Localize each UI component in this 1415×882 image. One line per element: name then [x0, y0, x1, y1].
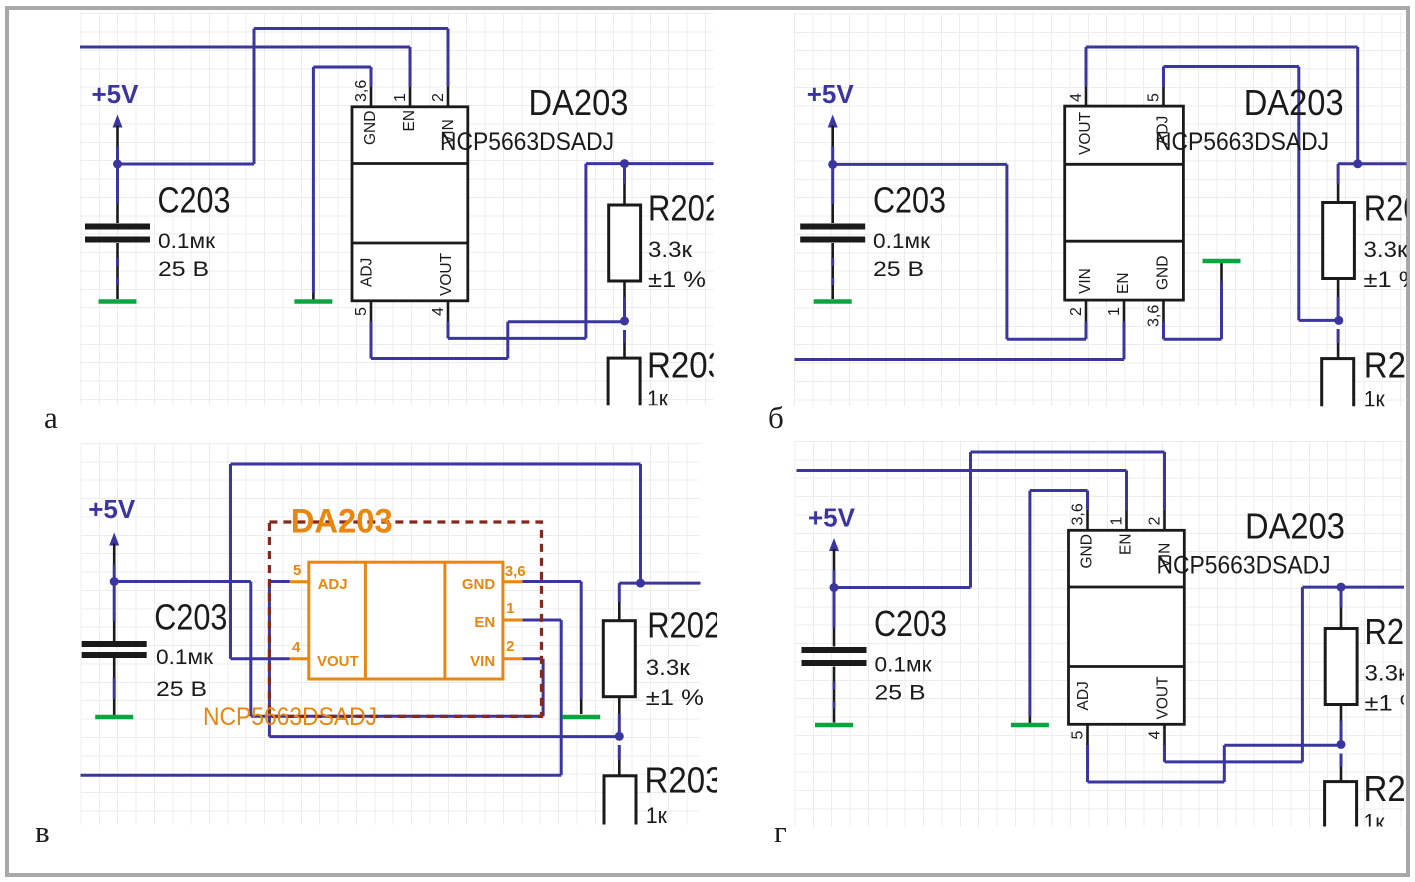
resistor R203 (v) — [618, 745, 621, 760]
svg-text:GND: GND — [362, 111, 379, 145]
svg-text:2: 2 — [430, 93, 447, 102]
ground (below C203) — [99, 299, 137, 304]
svg-text:ADJ: ADJ — [318, 576, 348, 593]
panel label b — [768, 400, 784, 436]
orange pin stub 1 EN — [503, 619, 523, 622]
junction output node (v) — [636, 579, 645, 588]
svg-text:GND: GND — [462, 576, 496, 593]
wire +5V horizontal y=581 — [114, 580, 251, 583]
ground stem (v) — [580, 699, 583, 714]
svg-text:GND: GND — [1155, 256, 1172, 290]
wire ADJ down dashed left edge — [268, 582, 271, 737]
svg-text:EN: EN — [401, 110, 418, 132]
svg-text:5: 5 — [1146, 93, 1163, 102]
svg-text:R203: R203 — [1364, 345, 1415, 386]
wire VIN net vertical x=1007 — [1005, 164, 1008, 339]
junction divider midpoint (b) — [1334, 316, 1343, 325]
svg-text:5: 5 — [353, 307, 370, 316]
wire +5V vertical x=251 — [249, 582, 252, 717]
pin stub 3,6 top — [370, 86, 373, 106]
junction divider midpoint (v) — [615, 732, 624, 741]
pin stub 1 top — [409, 86, 412, 106]
svg-text:R202: R202 — [648, 188, 722, 229]
wire VOUT horizontal y=47 — [1086, 46, 1358, 49]
svg-text:25 В: 25 В — [873, 258, 924, 281]
wire ADJ horizontal y=358 — [371, 357, 508, 360]
wire output jog to R202 — [1338, 162, 1358, 165]
wire GND horizontal (v) — [522, 580, 581, 583]
wire VIN net horizontal y=339 — [1007, 338, 1086, 341]
svg-text:DA203: DA203 — [529, 82, 629, 123]
wire VOUT vertical above pin 4 — [1085, 47, 1088, 86]
panel label g — [774, 814, 787, 850]
svg-text:1: 1 — [506, 600, 514, 617]
orange divider 1 (v) — [364, 562, 367, 679]
wire VIN vertical to pin 2 — [447, 29, 450, 87]
svg-text:25 В: 25 В — [156, 678, 207, 701]
pin stub 5 top (b) — [1162, 86, 1165, 106]
svg-text:3,6: 3,6 — [505, 563, 526, 580]
pin stub 4 bottom — [447, 301, 450, 322]
IC divider line 2 (b) — [1065, 240, 1184, 243]
orange symbol body DA203 (v) — [309, 562, 503, 679]
wire GND vertical down to ground — [312, 67, 315, 293]
svg-text:4: 4 — [292, 639, 301, 656]
svg-text:NCP5663DSADJ: NCP5663DSADJ — [440, 128, 614, 156]
pin stub 5 bottom — [370, 301, 373, 322]
wire link to ADJ stub (v) — [269, 580, 289, 583]
wire output net y=164 — [586, 162, 714, 165]
panel a background grid — [80, 14, 714, 406]
junction output node / R202 top — [620, 159, 629, 168]
wire VOUT net top horizontal y=464 — [231, 463, 641, 466]
svg-text:VOUT: VOUT — [317, 653, 359, 670]
svg-text:+5V: +5V — [92, 79, 140, 109]
pin stub 4 top (b) — [1085, 86, 1088, 106]
resistor R203 — [623, 330, 626, 343]
svg-text:C203: C203 — [873, 180, 946, 221]
svg-text:1к: 1к — [646, 803, 667, 828]
junction output node (b) — [1353, 159, 1362, 168]
wire to divider midpoint (v) — [269, 735, 620, 738]
svg-text:4: 4 — [1068, 93, 1085, 102]
capacitor C203 (b) — [831, 164, 834, 204]
wire to VOUT stub (v) — [231, 657, 290, 660]
svg-text:R203: R203 — [647, 345, 726, 386]
panel label a — [44, 400, 58, 436]
panel b background grid — [794, 14, 1406, 406]
wire VOUT vertical — [447, 322, 450, 339]
svg-text:3,6: 3,6 — [1146, 305, 1163, 327]
wire EN vertical (v) — [560, 620, 563, 775]
svg-text:3.3к: 3.3к — [1364, 237, 1408, 262]
ground (below C203, b) — [814, 299, 852, 304]
wire GND vertical — [1162, 322, 1165, 340]
junction divider midpoint — [620, 316, 629, 325]
svg-text:EN: EN — [474, 614, 495, 631]
ground stem — [312, 293, 315, 300]
wire along dashed bottom edge — [251, 715, 543, 718]
orange pin stub 5 ADJ — [290, 580, 309, 583]
resistor R202 — [623, 164, 626, 184]
svg-text:0.1мк: 0.1мк — [158, 230, 216, 253]
ground stem (b) — [1220, 263, 1223, 281]
orange pin stub 2 VIN — [503, 657, 523, 660]
svg-text:1к: 1к — [1364, 387, 1385, 412]
svg-text:C203: C203 — [154, 597, 227, 638]
svg-text:3.3к: 3.3к — [646, 655, 690, 680]
svg-text:±1 %: ±1 % — [1364, 267, 1415, 292]
wire VIN net horizontal y=28 — [254, 27, 448, 30]
svg-text:+5V: +5V — [807, 79, 855, 109]
orange divider 2 (v) — [443, 562, 446, 679]
dashed component outline DA203 (v) — [269, 522, 541, 716]
wire EN net horizontal y=47 — [80, 46, 410, 49]
capacitor C203 — [116, 164, 119, 204]
ground (below C203, v) — [95, 715, 133, 720]
pin stub 2 top — [447, 86, 450, 106]
wire vertical x=254 (+5V to VIN net) — [253, 29, 256, 165]
svg-text:VIN: VIN — [470, 653, 495, 670]
wire EN horizontal (v) — [522, 619, 561, 622]
wire ADJ horizontal y=66 — [1164, 65, 1299, 68]
wire VOUT vertical to output net — [584, 164, 587, 339]
svg-text:0.1мк: 0.1мк — [873, 230, 931, 253]
svg-text:VOUT: VOUT — [1077, 111, 1094, 155]
op-amp/regulator U DA203 box (b) — [1065, 106, 1184, 300]
svg-text:5: 5 — [293, 562, 301, 579]
wire EN vertical to pin 1 — [409, 47, 412, 86]
svg-text:DA203: DA203 — [291, 503, 393, 541]
resistor R203 (b) — [1337, 329, 1340, 343]
wire EN vertical — [1123, 322, 1126, 360]
wire ADJ vertical x=508 — [506, 322, 509, 359]
svg-text:3,6: 3,6 — [353, 80, 370, 102]
resistor R202 (v) — [618, 583, 621, 602]
op-amp/regulator U DA203 box — [352, 107, 468, 301]
resistor R202 (b) — [1337, 164, 1340, 184]
pin stub 1 bottom (b) — [1123, 300, 1126, 321]
wire up dashed right edge — [542, 659, 545, 717]
wire +5V junction to x=254 — [118, 163, 255, 166]
orange pin stub 4 VOUT — [290, 657, 309, 660]
wire GND horizontal — [1164, 338, 1222, 341]
svg-text:0.1мк: 0.1мк — [156, 646, 214, 669]
svg-text:1: 1 — [1106, 307, 1123, 316]
wire ADJ vertical above pin 5 — [1162, 67, 1165, 87]
svg-text:DA203: DA203 — [1244, 82, 1344, 123]
wire VOUT down to output node — [1356, 47, 1359, 164]
svg-text:VOUT: VOUT — [438, 252, 455, 296]
ground (GND pin net) — [294, 299, 332, 304]
wire GND net horizontal y=67 — [313, 66, 371, 69]
wire ADJ to divider midpoint — [1299, 319, 1339, 322]
svg-text:1: 1 — [392, 93, 409, 102]
svg-text:R203: R203 — [645, 759, 724, 800]
svg-text:1к: 1к — [647, 386, 668, 411]
svg-text:4: 4 — [430, 307, 447, 316]
IC divider line 1 — [352, 162, 468, 165]
wire EN net to left edge (v) — [81, 774, 562, 777]
svg-text:NCP5663DSADJ: NCP5663DSADJ — [203, 703, 377, 731]
wire to pin 2 VIN — [1085, 322, 1088, 340]
wire GND vertical (v) — [580, 582, 583, 700]
pin stub 2 bottom (b) — [1085, 300, 1088, 321]
svg-text:3.3к: 3.3к — [648, 237, 692, 262]
orange pin stub 3,6 GND — [503, 580, 523, 583]
wire VOUT net down to output node (v) — [639, 464, 642, 583]
junction node +5V/C203 (v) — [110, 577, 119, 586]
wire output net y=583 (v) — [619, 582, 700, 585]
IC divider line 2 — [352, 242, 468, 245]
wire ADJ vertical x=1299 — [1297, 67, 1300, 321]
wire to VIN stub (v) — [522, 657, 543, 660]
svg-text:VIN: VIN — [1077, 268, 1094, 294]
svg-text:2: 2 — [506, 638, 514, 655]
wire GND vertical to pin 3,6 — [370, 67, 373, 86]
svg-text:R202: R202 — [647, 604, 721, 645]
wire EN horizontal to left edge — [794, 358, 1124, 361]
junction node +5V/C203 — [113, 160, 122, 169]
wire VOUT horizontal y=338 — [448, 337, 586, 340]
panel v background grid — [81, 443, 701, 825]
wire +5V to VIN net horizontal — [833, 163, 1007, 166]
svg-text:NCP5663DSADJ: NCP5663DSADJ — [1155, 128, 1329, 156]
pin stub 3,6 bottom (b) — [1162, 300, 1165, 321]
svg-text:EN: EN — [1115, 272, 1132, 294]
ground (GND pin net, v) — [562, 715, 600, 720]
wire output net to right edge — [1358, 162, 1407, 165]
svg-text:ADJ: ADJ — [359, 258, 376, 287]
wire ADJ to divider junction — [508, 320, 625, 323]
capacitor C203 (v) — [113, 582, 116, 622]
junction node +5V/C203 (b) — [828, 160, 837, 169]
wire GND up to ground symbol — [1220, 281, 1223, 339]
panel g background grid — [795, 441, 1404, 827]
svg-text:+5V: +5V — [88, 494, 136, 524]
svg-text:C203: C203 — [158, 180, 231, 221]
svg-text:R202: R202 — [1364, 188, 1415, 229]
panel label v — [35, 814, 50, 850]
svg-text:±1 %: ±1 % — [646, 685, 704, 710]
wire VOUT net vertical x=230 — [229, 464, 232, 659]
svg-text:25 В: 25 В — [158, 258, 209, 281]
IC divider line 1 (b) — [1065, 163, 1184, 166]
svg-text:±1 %: ±1 % — [648, 267, 706, 292]
panel g: same schematic as panel a, translated — [797, 452, 1415, 858]
ground (GND pin net, b, bar above stem) — [1203, 259, 1241, 264]
svg-text:2: 2 — [1068, 307, 1085, 316]
wire ADJ vertical — [370, 322, 373, 359]
